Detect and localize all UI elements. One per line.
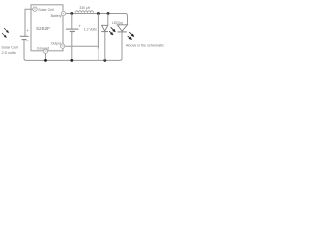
LED D2 emission arrow b <box>128 36 130 38</box>
battery B1 stem top <box>71 14 73 29</box>
LED D1 emission arrow b <box>109 31 111 33</box>
pin 4 circle (Ground pin) <box>43 49 47 53</box>
node: ground rail / LED1 <box>103 59 106 62</box>
output riser wire <box>97 14 99 49</box>
bottom ground rail <box>24 32 122 60</box>
solar light arrow 2 <box>2 33 5 36</box>
LED D2 emission arrow a <box>129 32 132 35</box>
wire solar cell + to pin 1 <box>25 9 33 36</box>
battery B1 long plate <box>66 28 79 30</box>
svg-text:2.5 volts: 2.5 volts <box>2 51 16 55</box>
node: ground rail / battery <box>70 59 73 62</box>
pin 1 circle (Solar Cell pin) <box>33 7 37 11</box>
solar light arrow 1 <box>4 28 7 31</box>
LED1 top wire <box>107 14 109 26</box>
LED D1 emission arrow a <box>111 27 114 30</box>
LED D2 cathode bar <box>118 31 127 33</box>
solar cell PV1 short plate <box>22 39 27 41</box>
svg-text:+: + <box>26 28 29 33</box>
pin 2 circle (Battery pin) <box>61 11 65 15</box>
ground pin stem <box>45 53 47 60</box>
svg-text:LED(s): LED(s) <box>112 21 123 25</box>
inductor L1 330uH <box>75 11 93 13</box>
svg-text:Solar Cell: Solar Cell <box>38 8 54 12</box>
svg-text:Ground: Ground <box>37 46 49 50</box>
svg-text:+: + <box>78 23 81 28</box>
svg-text:1.2 Volts: 1.2 Volts <box>84 27 97 31</box>
LED D2 triangle <box>117 25 127 31</box>
output wire to riser <box>65 45 99 47</box>
top rail wire from battery pin to right corner <box>66 14 128 25</box>
solar cell PV1 long plate <box>20 35 29 37</box>
node: output riser junction <box>97 12 100 15</box>
LED D1 bottom wire <box>104 32 106 61</box>
LED D1 triangle <box>102 25 108 31</box>
svg-text:Battery: Battery <box>51 14 62 18</box>
IC U1 box (5252F) <box>31 5 63 51</box>
svg-text:−: − <box>26 38 29 43</box>
battery minus tick <box>71 32 74 34</box>
LED D1 cathode bar <box>101 31 108 33</box>
battery B1 stem bottom <box>71 31 73 60</box>
battery B1 short plate <box>70 30 75 32</box>
svg-text:5252F: 5252F <box>36 26 50 32</box>
svg-text:Above is the schematic: Above is the schematic <box>126 43 164 47</box>
svg-text:Solar Cell: Solar Cell <box>1 46 18 50</box>
svg-text:Output: Output <box>51 42 61 46</box>
output riser faint tail <box>97 49 99 61</box>
node: ground rail / ground pin <box>44 59 47 62</box>
svg-text:330 µH: 330 µH <box>79 6 90 10</box>
pin 3 circle (Output pin) <box>60 44 64 48</box>
node: LED1 branch junction <box>107 12 110 15</box>
node: battery branch junction <box>70 12 73 15</box>
